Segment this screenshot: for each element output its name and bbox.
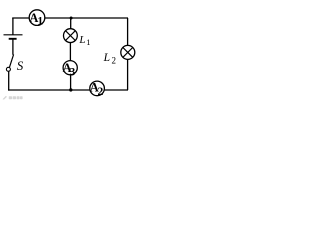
svg-text:3: 3 bbox=[70, 67, 76, 79]
svg-text:S: S bbox=[17, 58, 24, 73]
svg-text:1: 1 bbox=[37, 15, 43, 27]
svg-text:2: 2 bbox=[98, 86, 104, 98]
svg-text:L: L bbox=[78, 34, 85, 46]
svg-text:1: 1 bbox=[86, 37, 90, 47]
svg-text:L: L bbox=[103, 52, 110, 64]
svg-text:2: 2 bbox=[112, 55, 117, 65]
